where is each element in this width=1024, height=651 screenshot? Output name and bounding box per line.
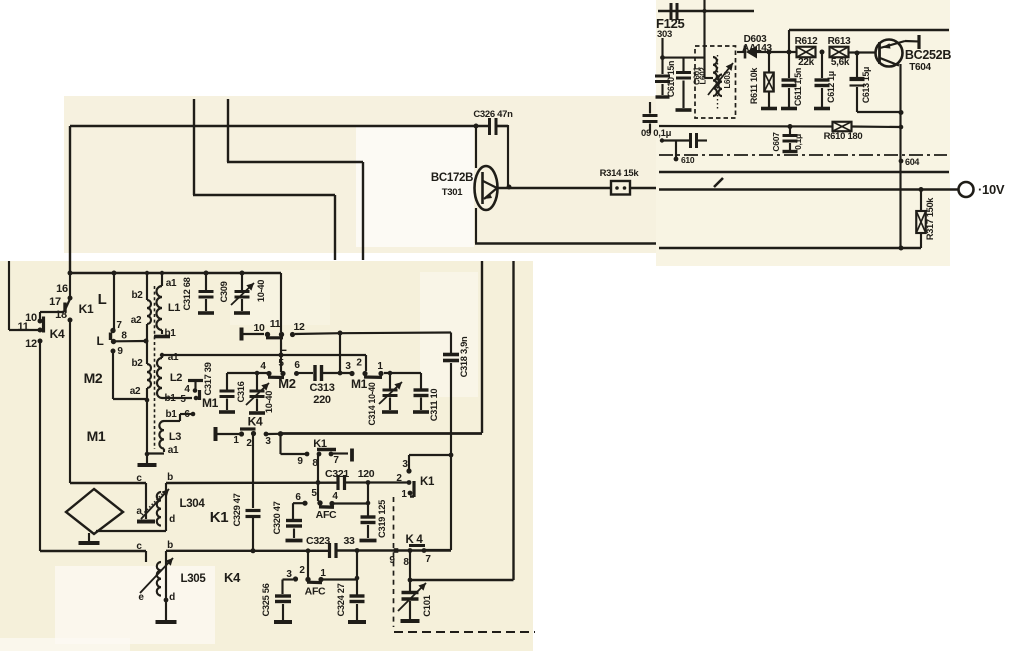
svg-text:10: 10 xyxy=(253,322,265,334)
capacitor C321 120 series xyxy=(336,475,339,490)
wire R610 run y126 xyxy=(659,125,832,128)
svg-text:L1: L1 xyxy=(168,302,180,314)
ground L304 a xyxy=(137,520,155,524)
svg-text:3: 3 xyxy=(402,459,408,470)
node 604 xyxy=(899,159,904,164)
capacitor C324 27 xyxy=(323,578,357,580)
svg-text:a1: a1 xyxy=(166,278,177,289)
svg-text:1: 1 xyxy=(377,361,383,372)
svg-text:BC252B: BC252B xyxy=(905,48,951,62)
trimmer C309 10-40 xyxy=(241,273,243,290)
resistor R611 10k xyxy=(768,52,770,73)
svg-text:C329 47: C329 47 xyxy=(232,493,242,526)
wire K1-8 down to C321 xyxy=(317,455,319,483)
svg-text:b1: b1 xyxy=(164,393,176,404)
resistor R610 180 xyxy=(833,122,852,132)
wire main feed line y127 xyxy=(70,125,489,128)
band switch L contacts 10 11 12 xyxy=(240,328,244,341)
long rail y551 left xyxy=(40,550,146,552)
svg-text:3: 3 xyxy=(286,569,292,580)
coil L305 tunable xyxy=(145,551,147,562)
L304 d wire to diamond xyxy=(96,530,166,532)
thick K4 rail y433 xyxy=(280,432,482,435)
wire C613 to collector node xyxy=(857,111,901,113)
svg-text:2: 2 xyxy=(356,358,362,369)
svg-text:AFC: AFC xyxy=(305,586,326,598)
svg-text:L2: L2 xyxy=(170,372,182,384)
svg-text:22k: 22k xyxy=(798,57,815,68)
wire 11 down to junction L xyxy=(280,334,282,355)
svg-text:2: 2 xyxy=(396,473,402,484)
svg-text:C309: C309 xyxy=(219,281,229,302)
svg-text:C314 10-40: C314 10-40 xyxy=(367,382,377,425)
wire left vertical x70 xyxy=(69,126,71,273)
long rail y483 from contact 18 to L304 xyxy=(70,482,146,484)
rail y551 right xyxy=(166,550,328,552)
svg-text:d: d xyxy=(169,514,175,525)
node L junction xyxy=(279,353,284,358)
capacitor C318 3.9n xyxy=(450,333,452,354)
svg-text:0,1μ: 0,1μ xyxy=(793,134,803,150)
svg-text:303: 303 xyxy=(657,29,672,40)
switch K4 contacts 10 11 12 xyxy=(38,328,43,333)
svg-text:604: 604 xyxy=(905,157,919,167)
coil L1 xyxy=(161,273,163,286)
svg-text:AFC: AFC xyxy=(316,509,337,521)
tuner top rail y273 xyxy=(70,272,281,274)
tick mark xyxy=(714,178,723,187)
svg-text:K 4: K 4 xyxy=(406,534,424,546)
svg-text:M1: M1 xyxy=(351,377,368,391)
wire R314 to right block xyxy=(630,187,656,190)
rail -10V y189 xyxy=(659,188,958,190)
svg-text:C318 3,9n: C318 3,9n xyxy=(459,336,469,377)
svg-text:9: 9 xyxy=(297,456,303,467)
contacts 7 8 9 xyxy=(113,273,115,329)
svg-text:M1: M1 xyxy=(202,396,219,410)
coil L304 tunable xyxy=(145,483,147,519)
contact terminal 4 5 M1 for L2 xyxy=(188,379,203,382)
svg-text:R317 150k: R317 150k xyxy=(925,197,935,240)
wire primary mid xyxy=(146,324,148,364)
svg-text:L603: L603 xyxy=(723,71,732,89)
svg-text:·10V: ·10V xyxy=(978,182,1005,197)
core dotted xyxy=(717,55,719,110)
capacitor C612 1u xyxy=(821,52,823,78)
scan paper block bottom-left (tuner) xyxy=(0,261,533,651)
svg-text:18: 18 xyxy=(55,309,67,321)
capacitor C325 56 xyxy=(283,578,294,580)
svg-text:C320 47: C320 47 xyxy=(272,501,282,534)
svg-text:b1: b1 xyxy=(165,409,177,420)
capacitor C320 47 xyxy=(293,502,303,504)
capacitor C613 15u electrolytic xyxy=(856,53,858,77)
svg-text:C612 1μ: C612 1μ xyxy=(826,71,836,103)
variable capacitor C101 xyxy=(409,580,411,591)
IF transformer dashed can L601 L602 L603 xyxy=(695,46,736,118)
svg-text:K1: K1 xyxy=(313,438,327,450)
capacitor C319 125 xyxy=(367,483,369,517)
wire 12 to C318 corner xyxy=(295,332,340,335)
wire far-left vertical xyxy=(8,261,10,330)
svg-text:L3: L3 xyxy=(169,431,181,443)
svg-text:K4: K4 xyxy=(248,415,263,429)
wire C318 branch down to K4 7 xyxy=(450,455,452,550)
wire contact 18 down xyxy=(69,320,71,483)
svg-text:C319 125: C319 125 xyxy=(377,500,387,538)
svg-text:a1: a1 xyxy=(168,352,179,363)
wire step upper left vertical 1 xyxy=(193,99,195,195)
svg-text:C613 15μ: C613 15μ xyxy=(861,67,871,103)
collector tick bar xyxy=(917,35,920,49)
svg-text:C316: C316 xyxy=(236,381,246,402)
node base-emitter junction xyxy=(507,185,512,190)
svg-text:8: 8 xyxy=(121,331,127,342)
wire diode to R612 xyxy=(757,51,797,53)
svg-text:b: b xyxy=(167,540,173,551)
svg-text:220: 220 xyxy=(313,394,331,406)
node C611 tap / feedback xyxy=(787,50,792,55)
svg-text:4: 4 xyxy=(332,491,338,502)
terminal -10V xyxy=(959,182,974,197)
switch K4 contacts 9 8 7 bottom xyxy=(394,548,399,553)
svg-text:1: 1 xyxy=(233,435,239,446)
svg-text:M1: M1 xyxy=(87,428,106,444)
wire can to diode xyxy=(737,51,745,53)
svg-text:C101: C101 xyxy=(422,594,433,617)
capacitor C323 33 series xyxy=(328,543,331,558)
coil primary column x147 winding L xyxy=(146,273,148,300)
transistor T301 BC172B xyxy=(475,166,498,210)
svg-text:T301: T301 xyxy=(442,187,463,198)
wire top pin line xyxy=(658,10,754,12)
svg-text:b: b xyxy=(167,472,173,483)
node C607 tap xyxy=(788,124,793,129)
diamond coupling element xyxy=(66,489,123,534)
wire step 1 horizontal xyxy=(193,194,335,196)
svg-text:7: 7 xyxy=(425,554,431,565)
svg-text:11: 11 xyxy=(270,318,281,330)
wire 9 down to a2 xyxy=(112,351,114,399)
svg-text:17: 17 xyxy=(49,296,61,308)
coil primary M2 winding xyxy=(147,364,151,388)
wire vertical to transistor base xyxy=(475,125,477,168)
resistor R613 5.6k xyxy=(830,47,849,58)
capacitor C313 220 series xyxy=(313,365,316,381)
svg-text:1: 1 xyxy=(320,568,326,579)
node C612 tap xyxy=(820,50,825,55)
switch K4 contacts 1 2 3 top xyxy=(214,427,218,441)
node branch to K1 9 xyxy=(278,431,283,436)
capacitor C610 15n xyxy=(661,38,663,74)
wire C326 to base corner xyxy=(496,125,508,128)
wire to C313 xyxy=(297,372,313,374)
coil L602 xyxy=(713,57,717,96)
wire L junction down to M2-5 xyxy=(280,355,282,372)
svg-text:b1: b1 xyxy=(164,328,176,339)
wire to contact 11 xyxy=(9,329,38,331)
svg-text:L305: L305 xyxy=(180,573,206,585)
svg-text:2: 2 xyxy=(246,438,252,449)
trimmer C314 10-40 xyxy=(389,373,391,389)
rail y172 xyxy=(659,171,949,173)
svg-text:M2: M2 xyxy=(84,370,103,386)
node C326 left xyxy=(474,124,479,129)
svg-text:d: d xyxy=(169,592,175,603)
svg-text:8: 8 xyxy=(403,557,409,568)
resistor R612 22k xyxy=(797,47,816,58)
svg-text:5,6k: 5,6k xyxy=(831,57,850,68)
ground primary xyxy=(146,454,148,463)
wire step 1 down stub xyxy=(334,195,336,260)
svg-text:BC172B: BC172B xyxy=(431,172,473,184)
svg-text:3: 3 xyxy=(265,436,271,447)
svg-text:6: 6 xyxy=(294,360,300,371)
scan paper block middle-left xyxy=(64,96,656,253)
svg-text:C325 56: C325 56 xyxy=(261,583,271,616)
svg-text:6: 6 xyxy=(295,492,301,503)
svg-text:K1: K1 xyxy=(420,476,435,488)
svg-text:a: a xyxy=(136,506,142,517)
contact 6 and L3 xyxy=(191,412,196,417)
node 610 xyxy=(675,141,677,159)
svg-text:10-40: 10-40 xyxy=(264,391,274,413)
svg-text:L: L xyxy=(96,334,103,348)
capacitor C312 68 xyxy=(205,273,207,290)
svg-text:e: e xyxy=(138,592,144,603)
coil L2 xyxy=(161,355,163,358)
switch K1 AFC contacts 6 5 4 xyxy=(302,501,307,506)
svg-text:3: 3 xyxy=(345,361,351,372)
svg-text:a2: a2 xyxy=(130,386,141,397)
wire step upper left vertical 2 xyxy=(227,99,229,162)
svg-text:C317 39: C317 39 xyxy=(203,362,213,395)
svg-text:a1: a1 xyxy=(168,445,179,456)
svg-text:12: 12 xyxy=(293,321,305,333)
wire step 2 down stub xyxy=(362,162,364,260)
capacitor C329 47 series vertical xyxy=(252,434,254,509)
svg-text:b2: b2 xyxy=(131,290,143,301)
svg-text:C323: C323 xyxy=(306,535,330,547)
resistor R314 15k xyxy=(611,181,630,195)
wire vertical into IF can xyxy=(703,0,705,78)
switch K1 contacts 3 2 1 right xyxy=(406,468,411,473)
svg-text:4: 4 xyxy=(260,361,266,372)
svg-text:c: c xyxy=(136,473,142,484)
svg-text:R611 10k: R611 10k xyxy=(749,67,759,104)
capacitor C326 47n xyxy=(488,118,491,135)
svg-text:10-40: 10-40 xyxy=(256,280,266,302)
capacitor C311 10 xyxy=(420,373,422,389)
svg-text:R613: R613 xyxy=(828,36,851,47)
node tuner top left xyxy=(68,271,73,276)
trimmer C316 10-40 xyxy=(256,373,258,390)
dash-dot rail y155 xyxy=(659,154,947,156)
capacitor C602 secondary xyxy=(663,57,705,59)
rail y483 L304-b to C321 xyxy=(166,482,337,485)
switch K4 AFC contacts 3 2 1 bottom xyxy=(307,551,309,579)
capacitor C611 1.5n xyxy=(788,52,790,78)
node C613 tap xyxy=(855,51,860,56)
contacts M2 4 5 6 xyxy=(266,371,271,376)
wire L junction left to L2 xyxy=(162,354,281,356)
wire primary to ground xyxy=(146,388,148,454)
wire K4-8 to right edge corner xyxy=(409,551,411,580)
svg-text:K4: K4 xyxy=(50,327,65,341)
svg-text:33: 33 xyxy=(343,535,355,547)
svg-text:T604: T604 xyxy=(909,62,931,73)
svg-text:K1: K1 xyxy=(210,509,229,526)
wire feedback up and right xyxy=(788,30,790,52)
svg-text:M2: M2 xyxy=(278,376,296,391)
core dashed line xyxy=(154,286,156,449)
wire corner down to band contact 11 xyxy=(280,273,282,332)
svg-text:R314 15k: R314 15k xyxy=(600,168,640,179)
svg-text:5: 5 xyxy=(180,394,186,405)
svg-text:L304: L304 xyxy=(179,498,205,510)
svg-text:7: 7 xyxy=(116,320,122,331)
switch K1 contacts 16 17 18 xyxy=(69,273,71,297)
wire M1 rail right xyxy=(384,372,421,374)
svg-text:L602: L602 xyxy=(699,67,708,85)
wire step 2 horizontal xyxy=(227,161,363,163)
svg-text:C607: C607 xyxy=(771,132,781,152)
svg-text:C324 27: C324 27 xyxy=(336,583,346,616)
node R611 tap xyxy=(767,50,772,55)
wire emitter vertical down x901 xyxy=(899,64,901,248)
svg-text:K4: K4 xyxy=(224,570,241,585)
wire collector down xyxy=(475,208,477,243)
svg-text:11: 11 xyxy=(17,321,28,333)
svg-text:120: 120 xyxy=(358,468,375,480)
wire contact 12 down xyxy=(39,341,41,551)
contacts M1 3 2 1 xyxy=(349,371,354,376)
coil L603 tunable xyxy=(718,75,722,97)
capacitor series in top line xyxy=(670,3,673,20)
svg-text:9: 9 xyxy=(117,346,123,357)
svg-text:9: 9 xyxy=(389,555,395,566)
transistor T604 BC252B xyxy=(876,40,903,67)
svg-text:1: 1 xyxy=(401,489,407,500)
switch K1 contacts 9 8 7 xyxy=(305,452,310,457)
wire collector bottom run xyxy=(475,242,656,245)
diode D603 AA143 xyxy=(744,46,747,59)
svg-text:b2: b2 xyxy=(131,358,143,369)
svg-text:5: 5 xyxy=(278,358,284,369)
svg-text:12: 12 xyxy=(25,338,37,350)
svg-text:R612: R612 xyxy=(795,36,818,47)
capacitor C607 0.1u xyxy=(789,128,791,134)
resistor R317 150k xyxy=(920,190,922,212)
svg-text:C313: C313 xyxy=(309,382,334,394)
svg-text:K1: K1 xyxy=(79,302,94,316)
svg-text:C326 47n: C326 47n xyxy=(473,109,513,120)
seam verticals from BC172B xyxy=(481,261,483,433)
svg-text:09 0,1μ: 09 0,1μ xyxy=(641,128,672,139)
svg-text:C311 10: C311 10 xyxy=(429,389,439,422)
svg-text:5: 5 xyxy=(311,488,317,499)
ground L305 xyxy=(165,600,167,620)
dashed gang linkage xyxy=(393,497,395,627)
svg-text:C321: C321 xyxy=(325,468,349,480)
svg-text:c: c xyxy=(136,541,142,552)
wire to K1 contact 3 right xyxy=(409,454,451,456)
wire L junction right and down to M1-2 xyxy=(281,354,366,356)
arrow tuning slug L603 xyxy=(708,63,733,95)
svg-text:C610 15n: C610 15n xyxy=(666,61,676,97)
svg-text:C312 68: C312 68 xyxy=(182,277,192,310)
ground diamond xyxy=(88,533,90,541)
node C318 branch xyxy=(449,453,454,458)
M2 rail wire xyxy=(227,372,267,374)
svg-text:R610 180: R610 180 xyxy=(824,131,863,142)
svg-text:L: L xyxy=(98,291,107,308)
scan paper block top-right xyxy=(656,0,950,266)
svg-text:7: 7 xyxy=(333,455,339,466)
wire 12-branch down to M2 rail xyxy=(339,333,341,372)
wire R613 to base xyxy=(848,51,876,53)
wire emitter to R314 xyxy=(497,187,612,190)
svg-text:16: 16 xyxy=(56,283,68,295)
svg-text:610: 610 xyxy=(681,155,695,165)
svg-text:a2: a2 xyxy=(131,315,142,326)
svg-text:2: 2 xyxy=(299,565,305,576)
capacitor C608 partial at seam xyxy=(643,114,658,117)
bottom rail y248 xyxy=(659,247,921,249)
svg-text:C611 1,5n: C611 1,5n xyxy=(793,68,803,106)
capacitor C317 39 xyxy=(226,373,228,390)
